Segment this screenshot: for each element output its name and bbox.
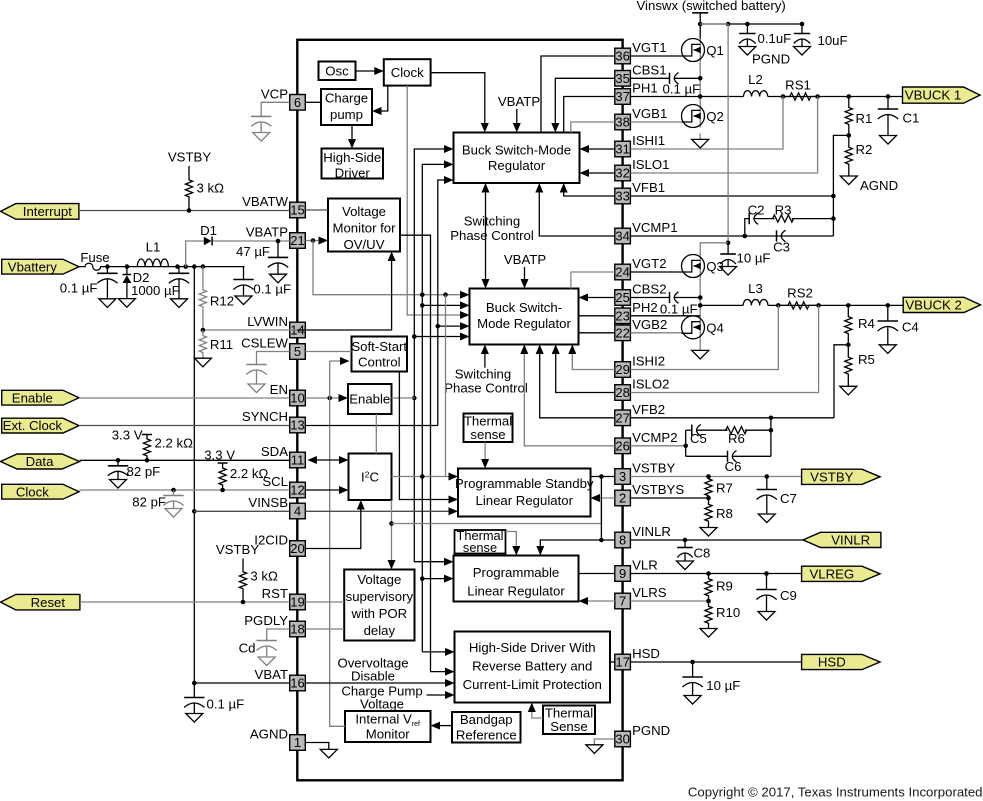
- pin 36 (VGT1): [615, 40, 667, 64]
- svg-text:20: 20: [290, 541, 304, 556]
- svg-text:L2: L2: [748, 72, 763, 87]
- resistor R6 compensation: [726, 427, 747, 446]
- svg-text:R11: R11: [210, 337, 233, 352]
- resistor R11: [199, 330, 233, 358]
- svg-text:VLREG: VLREG: [809, 566, 854, 581]
- capacitor C9: [756, 574, 797, 621]
- svg-text:15: 15: [290, 203, 304, 218]
- io label Ext. Clock: [2, 418, 79, 433]
- resistor R10: [705, 601, 740, 629]
- pin 29 (ISHI2): [615, 354, 665, 378]
- svg-text:R5: R5: [858, 352, 875, 367]
- supply 3.3V for SDA pullup: [112, 428, 152, 443]
- svg-text:Ext. Clock: Ext. Clock: [3, 418, 63, 433]
- wire Bandgap to Vref monitor: [431, 722, 453, 730]
- svg-text:10uF: 10uF: [818, 33, 848, 48]
- svg-text:Reset: Reset: [31, 595, 66, 610]
- wire VLR from linear regulator: [579, 573, 615, 575]
- wire I2CID to I2C: [305, 500, 365, 549]
- wire ISLO1 into buck 1: [580, 169, 615, 177]
- voltage monitor OV/UV block: [328, 199, 400, 253]
- svg-text:PGND: PGND: [752, 52, 790, 67]
- svg-text:VBUCK 2: VBUCK 2: [905, 298, 961, 313]
- diode D1: [200, 223, 217, 245]
- svg-text:C5: C5: [690, 431, 707, 446]
- wire Charge pump to High-Side Driver: [348, 125, 356, 149]
- svg-text:Monitor for: Monitor for: [332, 221, 396, 236]
- svg-text:HSD: HSD: [632, 646, 660, 661]
- svg-text:R7: R7: [716, 481, 733, 496]
- svg-text:R4: R4: [858, 316, 875, 331]
- resistor R3 compensation: [773, 203, 794, 223]
- wire Osc to Clock: [356, 67, 384, 75]
- wire VFB1 from pin 33: [630, 194, 835, 199]
- ground below Q2: [692, 139, 709, 148]
- wire C5 R6 upper branch: [686, 428, 774, 456]
- svg-text:13: 13: [290, 418, 304, 433]
- pin 9 (VLR): [615, 558, 658, 582]
- svg-text:Enable: Enable: [349, 392, 390, 407]
- svg-text:Control: Control: [358, 354, 401, 369]
- svg-text:Programmable: Programmable: [473, 565, 560, 580]
- supply bar Vinswx: [692, 12, 708, 14]
- wire Vinswx supply rail: [698, 13, 804, 39]
- pin 17 (HSD): [615, 646, 660, 670]
- wire C2 R3 branch: [745, 219, 834, 236]
- svg-text:12: 12: [290, 483, 304, 498]
- io label HSD: [802, 654, 880, 669]
- transistor Q3: [682, 255, 724, 278]
- resistor R4: [845, 305, 875, 344]
- label VBATP arrow into buck 1: [498, 94, 540, 133]
- wire gray bus 445 upper: [445, 295, 447, 477]
- pin 7 (VLRS): [615, 585, 667, 609]
- svg-text:sense: sense: [470, 427, 505, 442]
- svg-text:Switching: Switching: [464, 214, 520, 229]
- io label Reset: [1, 594, 80, 610]
- svg-text:31: 31: [615, 142, 629, 157]
- pin 21 (VBATP): [246, 225, 306, 249]
- svg-text:9: 9: [619, 566, 626, 581]
- svg-text:CBS1: CBS1: [632, 62, 666, 77]
- wire battery rail down (VBAT rail): [192, 267, 197, 698]
- svg-text:Regulator: Regulator: [488, 158, 546, 173]
- svg-text:L1: L1: [146, 240, 161, 255]
- resistor R5: [845, 345, 875, 387]
- svg-text:0.1 µF: 0.1 µF: [253, 282, 291, 297]
- wire VINLR line: [630, 538, 820, 543]
- wire CBS2 into buck 2: [579, 294, 615, 302]
- pin 24 (VGT2): [615, 256, 667, 280]
- capacitor C2 in series: [748, 203, 765, 225]
- pin 1 (AGND): [250, 727, 305, 751]
- svg-text:Voltage: Voltage: [360, 697, 404, 712]
- pin 26 (VCMP2): [615, 430, 678, 454]
- wire ISHI1 sense: [630, 97, 783, 150]
- svg-text:R8: R8: [716, 506, 733, 521]
- capacitor 0.1uF CBS1: [670, 73, 679, 85]
- pin 28 (ISLO2): [615, 377, 670, 401]
- svg-text:Data: Data: [26, 454, 55, 469]
- wire VBAT stub: [194, 682, 289, 684]
- wire VFB2 into buck 2 bottom: [536, 345, 615, 418]
- svg-text:23: 23: [615, 309, 629, 324]
- svg-text:26: 26: [615, 439, 629, 454]
- capacitor 0.1uF at Vbattery input: [60, 267, 118, 308]
- svg-text:8: 8: [619, 533, 626, 548]
- wire standby regulator output to pin 3: [591, 474, 615, 479]
- svg-text:Current-Limit Protection: Current-Limit Protection: [463, 677, 602, 692]
- wire CBS1 series cap: [630, 78, 700, 96]
- wire VLRS into linear regulator: [579, 597, 615, 605]
- label Switching Phase Control 1: [450, 214, 534, 243]
- svg-text:10 µF: 10 µF: [706, 678, 740, 693]
- svg-text:Clock: Clock: [16, 484, 49, 499]
- resistor R2: [845, 135, 872, 176]
- svg-text:LVWIN: LVWIN: [247, 314, 288, 329]
- svg-text:Voltage: Voltage: [342, 204, 386, 219]
- wire switching phase control link: [482, 183, 490, 289]
- svg-text:Voltage: Voltage: [357, 572, 401, 587]
- svg-text:L3: L3: [748, 281, 763, 296]
- svg-text:CSLEW: CSLEW: [241, 336, 288, 351]
- ground below D2: [118, 299, 135, 308]
- svg-text:34: 34: [615, 229, 629, 244]
- svg-text:VBAT: VBAT: [255, 667, 288, 682]
- svg-text:Phase Control: Phase Control: [444, 381, 528, 396]
- io label Interrupt: [1, 204, 79, 220]
- wire Ext Clock to pin 13: [79, 425, 290, 427]
- ground below R2 AGND: [840, 176, 898, 193]
- pin 23 (PH2): [615, 300, 658, 324]
- svg-text:22: 22: [615, 326, 629, 341]
- pin 5 (CSLEW): [241, 336, 305, 360]
- svg-text:3 kΩ: 3 kΩ: [197, 181, 225, 196]
- diode D2: [122, 267, 179, 299]
- pin 32 (ISLO1): [615, 157, 670, 181]
- wire R1-R2 junction to VFB1: [833, 133, 851, 196]
- svg-text:7: 7: [619, 594, 626, 609]
- svg-text:C9: C9: [780, 588, 797, 603]
- svg-text:C4: C4: [902, 320, 919, 335]
- svg-text:24: 24: [615, 265, 629, 280]
- capacitor at VCP: [251, 116, 271, 141]
- wire pin 15 VBATW to OV/UV monitor: [305, 209, 328, 211]
- thermal sense block 3: [543, 706, 595, 735]
- label VSTBY net above 3k reset resistor: [216, 542, 259, 557]
- svg-text:with POR: with POR: [350, 606, 407, 621]
- svg-text:Q3: Q3: [706, 259, 724, 274]
- wire VLRS sense line: [630, 599, 710, 604]
- svg-text:Interrupt: Interrupt: [23, 204, 72, 219]
- ground below R11: [194, 358, 211, 367]
- wire Vinswx branch to Q3: [700, 24, 730, 255]
- supply 3.3V for SCL pullup: [204, 448, 235, 464]
- io label VLREG: [802, 566, 880, 581]
- wire Q2 source to ground: [699, 134, 701, 140]
- capacitor 10uF at HSD: [682, 662, 740, 704]
- pin 8 (VINLR): [615, 524, 671, 548]
- svg-text:C7: C7: [780, 491, 797, 506]
- wire VCMP2 into buck 2 bottom: [520, 345, 615, 446]
- wire VGT1 to Q1 gate: [630, 55, 681, 57]
- svg-text:3: 3: [619, 469, 626, 484]
- svg-text:Buck Switch-: Buck Switch-: [486, 300, 562, 315]
- svg-text:RS2: RS2: [787, 286, 813, 301]
- wire SYNCH from pin 13: [305, 425, 438, 427]
- wire Vbattery main line: [105, 264, 245, 269]
- pin 27 (VFB2): [615, 402, 665, 426]
- svg-text:47 µF: 47 µF: [236, 244, 270, 259]
- svg-text:0.1 µF: 0.1 µF: [663, 82, 701, 97]
- wire VCP to cap: [261, 102, 290, 116]
- oscillator block Osc: [319, 62, 356, 81]
- wire bus V5 to buck 2: [438, 322, 470, 330]
- programmable standby linear regulator block: [455, 469, 594, 517]
- wire VSTBYS sense line: [630, 496, 710, 501]
- svg-text:Reference: Reference: [456, 728, 517, 743]
- high-side driver block: [322, 149, 384, 181]
- svg-text:supervisory: supervisory: [346, 589, 414, 604]
- pin 18 (PGDLY): [244, 613, 305, 637]
- resistor R12: [199, 267, 234, 330]
- wire Clock to buck regulator 2 (bus V1): [407, 86, 469, 319]
- wire thermal sense 1 into standby regulator: [481, 442, 489, 469]
- copyright notice: [688, 785, 983, 800]
- pin 14 (LVWIN): [247, 314, 305, 338]
- wire PGND pin 30 to ground: [594, 739, 615, 745]
- capacitor C8: [677, 540, 711, 570]
- svg-text:Clock: Clock: [391, 65, 424, 80]
- inductor L1: [137, 240, 168, 267]
- pin 30 (PGND): [615, 723, 670, 747]
- svg-text:1000 µF: 1000 µF: [131, 283, 180, 298]
- svg-text:0.1 µF: 0.1 µF: [207, 697, 245, 712]
- wire SCL to I2C: [305, 486, 348, 494]
- svg-text:C3: C3: [773, 240, 790, 255]
- wire ISLO1 sense: [630, 97, 817, 174]
- wire Q4 source to ground: [699, 339, 701, 351]
- wire Clock to Charge pump: [372, 86, 388, 115]
- ground at pin 30 PGND: [586, 745, 603, 754]
- wire thermal sense 3 to HSD block: [528, 703, 543, 719]
- pin 20 (I2CID): [254, 533, 305, 557]
- svg-text:C6: C6: [725, 459, 742, 474]
- svg-text:R2: R2: [856, 142, 873, 157]
- wire ISLO2 into buck 2 bottom: [552, 345, 615, 393]
- label Switching Phase Control 2: [444, 366, 528, 395]
- svg-text:4: 4: [294, 504, 301, 519]
- wire LVWIN to OV/UV monitor bottom: [203, 252, 396, 331]
- wire VSTBY to VINLR link: [599, 477, 604, 543]
- svg-text:Vinswx (switched battery): Vinswx (switched battery): [637, 0, 786, 13]
- svg-text:35: 35: [615, 71, 629, 86]
- svg-text:25: 25: [615, 290, 629, 305]
- svg-text:6: 6: [294, 95, 301, 110]
- wire CBS1 into buck 1 top: [551, 78, 615, 132]
- wire CSLEW pin 5 to Soft-Start: [305, 351, 351, 353]
- wire PH2 to VBUCK2 line: [700, 303, 903, 308]
- pin 38 (VGB1): [615, 106, 667, 130]
- svg-text:0.1 µF: 0.1 µF: [660, 302, 698, 317]
- wire VCMP1 into buck 1 bottom: [535, 183, 615, 236]
- svg-text:18: 18: [290, 622, 304, 637]
- wire EN to Enable block: [305, 394, 348, 402]
- svg-text:High-Side: High-Side: [323, 150, 381, 165]
- wire RST to POR supervisor: [305, 601, 344, 603]
- svg-text:SDA: SDA: [261, 444, 288, 459]
- resistor RS2: [778, 286, 818, 310]
- label Charge Pump Voltage: [341, 684, 422, 712]
- wire VGB2 into buck 2: [579, 332, 615, 334]
- svg-text:29: 29: [615, 362, 629, 377]
- wire Clock to pin 12: [79, 488, 290, 493]
- thermal sense block 2: [455, 528, 506, 555]
- io label VBUCK 1: [903, 87, 981, 103]
- label VSTBY net above 3k resistor: [168, 150, 211, 165]
- svg-text:Enable: Enable: [12, 390, 53, 405]
- svg-text:VSTBY: VSTBY: [632, 461, 675, 476]
- svg-text:AGND: AGND: [860, 178, 898, 193]
- svg-text:R9: R9: [716, 579, 733, 594]
- svg-text:R3: R3: [775, 203, 792, 218]
- wire I2C to POR supervisor: [388, 500, 396, 570]
- svg-text:Copyright © 2017, Texas Instru: Copyright © 2017, Texas Instruments Inco…: [688, 785, 983, 800]
- svg-text:5: 5: [294, 344, 301, 359]
- svg-text:Cd: Cd: [239, 641, 256, 656]
- wire VFB2 from pin 27: [630, 416, 834, 421]
- IC body outline: [297, 40, 622, 781]
- svg-text:VBATP: VBATP: [498, 94, 540, 109]
- svg-text:27: 27: [615, 411, 629, 426]
- soft-start control block: [351, 337, 407, 372]
- io label Enable: [2, 390, 79, 405]
- wire VGB1 into buck 1 top: [571, 122, 615, 133]
- capacitor 1000uF: [169, 267, 189, 308]
- svg-text:sense: sense: [463, 540, 497, 555]
- wire bus to linear regulator: [422, 575, 453, 583]
- wire Interrupt to pin 15: [79, 208, 290, 213]
- svg-text:2.2 kΩ: 2.2 kΩ: [230, 466, 269, 481]
- wire thermal sense 2 into linear regulator: [506, 532, 521, 556]
- capacitor 47uF: [236, 241, 288, 283]
- wire bus to standby (V3 lower): [420, 477, 425, 652]
- svg-text:VINSB: VINSB: [248, 495, 288, 510]
- pin 2 (VSTBYS): [615, 482, 685, 506]
- wire C6 lower branch: [686, 418, 771, 457]
- enable block: [348, 384, 392, 414]
- capacitor 0.1uF at Vinswx: [739, 24, 791, 55]
- resistor 3 kOhm pullup (VSTBY-Interrupt): [185, 166, 224, 211]
- svg-text:R1: R1: [856, 111, 873, 126]
- inductor L3: [743, 281, 768, 305]
- svg-text:Fuse: Fuse: [80, 250, 109, 265]
- svg-text:RST: RST: [262, 586, 288, 601]
- svg-text:PGDLY: PGDLY: [244, 613, 288, 628]
- wire CSLEW to cap: [257, 352, 290, 365]
- svg-text:Linear Regulator: Linear Regulator: [467, 584, 565, 599]
- io label Clock: [2, 484, 79, 499]
- svg-text:11: 11: [291, 453, 305, 468]
- wire VLREG line: [630, 571, 801, 576]
- svg-text:Disable: Disable: [351, 669, 395, 684]
- wire Q1 source to Q2 drain: [698, 62, 703, 105]
- svg-text:19: 19: [290, 595, 304, 610]
- svg-text:VSTBY: VSTBY: [168, 150, 211, 165]
- svg-text:delay: delay: [364, 623, 396, 638]
- pin 31 (ISHI1): [615, 133, 665, 157]
- svg-text:21: 21: [290, 233, 304, 248]
- capacitor C5 in series: [690, 424, 707, 446]
- svg-text:VGT2: VGT2: [632, 256, 666, 271]
- ground below Q4: [692, 350, 709, 359]
- resistor R7: [705, 477, 733, 499]
- capacitor 82pF on Data: [108, 460, 160, 488]
- svg-text:32: 32: [615, 166, 629, 181]
- wire VBATP to buck 1 (bus V3 up): [422, 160, 453, 294]
- wire VFB1 into buck 1 bottom: [560, 183, 615, 196]
- svg-text:VCP: VCP: [261, 86, 288, 101]
- transistor Q4: [682, 316, 724, 339]
- svg-text:D1: D1: [200, 223, 217, 238]
- svg-text:PH2: PH2: [632, 300, 658, 315]
- wire VGB2 to Q4 gate: [630, 332, 681, 334]
- pin 25 (CBS2): [615, 282, 667, 306]
- svg-text:Monitor: Monitor: [366, 727, 411, 742]
- svg-text:Osc: Osc: [325, 63, 349, 78]
- svg-text:C2: C2: [748, 203, 765, 218]
- svg-text:Buck Switch-Mode: Buck Switch-Mode: [462, 143, 571, 158]
- pin 11 (SDA): [261, 444, 305, 468]
- svg-text:38: 38: [615, 115, 629, 130]
- wire SYNCH bus V5: [436, 176, 454, 426]
- resistor 2.2 kOhm SDA pullup: [143, 435, 193, 461]
- svg-text:I2CID: I2CID: [254, 533, 288, 548]
- svg-text:3 kΩ: 3 kΩ: [250, 569, 278, 584]
- wire Enable block output: [392, 397, 415, 399]
- svg-text:VSTBY: VSTBY: [810, 469, 853, 484]
- capacitor C1: [878, 97, 920, 145]
- resistor R1: [845, 97, 872, 136]
- wire VBATP distribution (bus): [313, 241, 470, 299]
- I2C block: [349, 454, 392, 501]
- svg-text:Q4: Q4: [706, 321, 724, 336]
- wire VCMP1 from pin 34: [630, 234, 833, 239]
- wire VSTBYS into standby regulator: [591, 494, 615, 502]
- wire VBATP to buck 2 (bus V3 down): [420, 295, 470, 477]
- wire Enable to pin 10: [79, 397, 290, 399]
- svg-text:Vbattery: Vbattery: [8, 259, 58, 274]
- clock block: [384, 59, 431, 85]
- pin 4 (VINSB): [248, 495, 305, 519]
- svg-text:16: 16: [290, 676, 304, 691]
- pin 35 (CBS1): [615, 62, 667, 86]
- resistor 2.2 kOhm SCL pullup: [219, 463, 268, 490]
- capacitor 0.1uF after L1: [233, 267, 291, 305]
- io label Data: [1, 454, 80, 469]
- svg-text:VBUCK 1: VBUCK 1: [905, 88, 961, 103]
- capacitor C4: [878, 305, 919, 353]
- io label VINLR: [803, 532, 881, 547]
- wire EN riser to Soft-Start and Vref monitor: [330, 357, 350, 726]
- capacitor 10uF at Q3 drain: [720, 243, 771, 275]
- svg-text:33: 33: [615, 189, 629, 204]
- svg-text:VBATP: VBATP: [504, 252, 546, 267]
- wire I2C output to standby regulator: [392, 473, 459, 481]
- svg-text:VFB2: VFB2: [632, 402, 665, 417]
- transistor Q1: [682, 39, 724, 62]
- capacitor C3 in series: [773, 230, 790, 254]
